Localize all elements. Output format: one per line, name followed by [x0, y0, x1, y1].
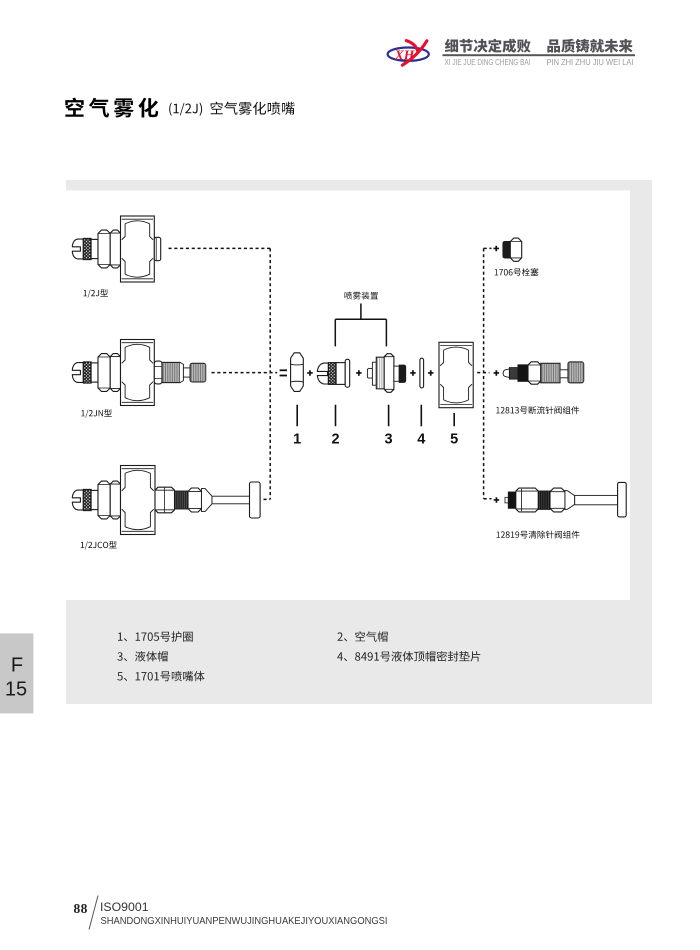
1/2JCO cone: [202, 488, 213, 511]
nozzle 1/2JCO: [72, 466, 260, 535]
svg-text:4: 4: [417, 432, 425, 448]
1/2JN knob: [190, 363, 206, 382]
slogan part 2: [547, 39, 632, 53]
label 1/2JCO型: [81, 541, 117, 550]
1/2JCO hex adapter: [155, 487, 175, 513]
title sub text: [211, 102, 295, 115]
logo Y swoosh: [402, 41, 427, 65]
1/2JN knurled sleeve: [162, 362, 180, 382]
svg-text:5: 5: [450, 432, 458, 448]
12819 assembly: [505, 497, 508, 503]
part 1 retaining ring 1705: [291, 353, 304, 392]
dashed line 1/2J to column: [169, 247, 271, 249]
plus sign 4-5: [428, 370, 434, 376]
label 1/2J型: [84, 289, 108, 298]
12813 assembly: [503, 369, 509, 377]
svg-text:SHANDONGXINHUIYUANPENWUJINGHUA: SHANDONGXINHUIYUANPENWUJINGHUAKEJIYOUXIA…: [101, 916, 388, 927]
dashed vertical column left: [269, 248, 271, 499]
plus sign 1-2: [307, 370, 313, 376]
svg-text:ISO9001: ISO9001: [100, 900, 149, 914]
svg-text:F: F: [11, 655, 23, 677]
1/2JCO T-handle: [250, 482, 261, 518]
1/2JCO rod: [212, 496, 250, 504]
footer slash: [89, 896, 98, 930]
title sub paren: [169, 103, 202, 116]
part 2 air cap: [317, 363, 328, 384]
parts item 3: [117, 651, 167, 661]
slogan part 1: [445, 39, 531, 53]
bracket: [335, 304, 386, 347]
plus sign 2-3: [356, 370, 362, 376]
1/2JCO hex 2: [188, 488, 202, 512]
leader lines 1-5: [297, 405, 454, 426]
svg-text:XI JIE JUE DING CHENG BAI: XI JIE JUE DING CHENG BAI: [445, 57, 531, 67]
F15 side tab: [0, 633, 33, 713]
svg-text:1: 1: [293, 432, 301, 448]
plug 1706: [503, 241, 510, 258]
plus sign 1706: [494, 246, 500, 251]
part 4 gasket 8491: [420, 358, 424, 388]
label 12819号清除针阀组件: [497, 531, 580, 539]
1/2JCO packing nut dark band: [175, 491, 189, 509]
dashed hook to 12819: [484, 498, 492, 500]
nozzle 1/2J: [72, 216, 160, 282]
label 12813号断流针阀组件: [496, 406, 579, 414]
logo ellipse: [388, 48, 429, 61]
parts item 1: [118, 631, 193, 641]
label 1/2JN型: [81, 409, 112, 418]
dashed hook to 1706 plug: [484, 247, 492, 249]
label 1706号栓塞: [495, 268, 539, 276]
page title: [65, 98, 158, 118]
svg-text:2: 2: [331, 432, 339, 448]
nozzle 1/2JN: [72, 340, 205, 406]
svg-text:88: 88: [74, 901, 88, 916]
white drawing area: [66, 191, 630, 601]
label 喷雾装置: [345, 292, 379, 300]
gray panel frame: [66, 180, 652, 704]
svg-text:15: 15: [5, 679, 27, 701]
parts item 5: [117, 671, 204, 681]
equals sign: [280, 369, 287, 371]
plus sign 12819: [494, 497, 500, 503]
dashed line 1/2JN to =: [212, 372, 278, 374]
svg-text:PIN ZHI ZHU JIU WEI LAI: PIN ZHI ZHU JIU WEI LAI: [547, 57, 634, 67]
plus sign 12813: [494, 370, 500, 376]
dashed vertical column right: [483, 248, 485, 498]
plus sign 3-4: [410, 370, 416, 376]
parts item 4: [337, 651, 480, 662]
slogan rule: [443, 54, 636, 56]
dashed line part5 to right column: [477, 372, 489, 374]
part 5 nozzle body 1701: [439, 342, 473, 407]
svg-text:3: 3: [385, 432, 393, 448]
dashed hook to 1/2JCO: [264, 498, 271, 500]
parts item 2: [338, 631, 388, 642]
part 3 fluid cap: [367, 369, 372, 379]
1/2JN stem: [183, 368, 190, 377]
